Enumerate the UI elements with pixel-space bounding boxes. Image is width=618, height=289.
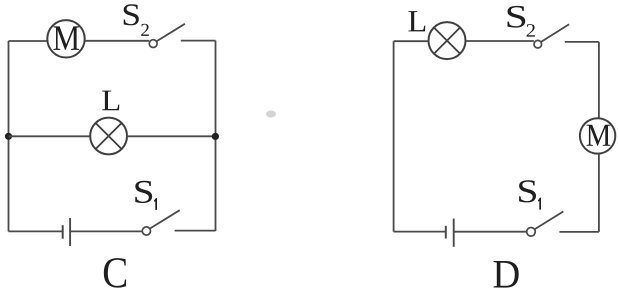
wire: D bottom-right segment	[559, 231, 599, 233]
wire: D top-left segment	[394, 40, 429, 42]
wire: D bottom middle segment	[454, 231, 527, 233]
switch S1 (circuit D) blade	[534, 212, 563, 230]
lamp L (circuit C)	[90, 118, 127, 155]
label D (circuit name)	[494, 261, 519, 288]
motor M (circuit D)	[580, 118, 615, 153]
wire: C top-right segment	[181, 40, 216, 42]
wire: D bottom-left segment	[394, 231, 446, 233]
battery (circuit D) short plate	[445, 226, 447, 239]
switch S1 (circuit C) blade	[150, 210, 180, 228]
battery (circuit D) long plate	[453, 219, 455, 247]
wire: D top middle segment (lamp to S2)	[466, 40, 534, 42]
wire: C bottom middle segment	[70, 230, 142, 232]
label C (circuit name)	[104, 258, 126, 288]
battery (circuit C) short plate	[62, 225, 64, 239]
label L (circuit C)	[102, 91, 119, 111]
switch S2 (circuit C) blade	[156, 24, 185, 42]
wire: D right vertical upper	[598, 42, 600, 118]
wire: D right vertical lower	[598, 154, 600, 232]
label S of S2 (circuit C)	[124, 4, 139, 25]
switch S2 (circuit C) pivot	[149, 40, 157, 48]
switch S2 (circuit D) blade	[541, 24, 569, 42]
battery (circuit C) long plate	[69, 218, 71, 246]
wire: C left vertical	[8, 41, 10, 231]
label L (circuit D)	[408, 11, 425, 31]
node: C left junction	[5, 133, 12, 140]
wire: C top middle segment (M to S2)	[84, 40, 149, 42]
label subscript 1 of S1 (circuit D)	[538, 198, 541, 210]
label subscript 1 of S1 (circuit C)	[154, 198, 157, 210]
wire: C right vertical	[215, 41, 217, 231]
label subscript 2 of S2 (circuit C)	[141, 24, 149, 36]
switch S2 (circuit D) pivot	[534, 40, 542, 48]
wire: C bottom-right segment	[175, 230, 216, 232]
lamp L (circuit D)	[429, 22, 466, 59]
label S of S1 (circuit C)	[135, 181, 152, 203]
label subscript 2 of S2 (circuit D)	[527, 24, 535, 36]
scan smudge artifact	[266, 111, 276, 118]
wire: C bottom-left segment	[9, 230, 63, 232]
switch S1 (circuit C) pivot	[142, 227, 150, 235]
wire: C middle-left segment	[9, 135, 91, 137]
label S of S2 (circuit D)	[508, 6, 526, 28]
motor M (circuit C)	[47, 20, 84, 57]
switch S1 (circuit D) pivot	[527, 228, 536, 237]
wire: C middle-right segment	[127, 135, 216, 137]
label S of S1 (circuit D)	[519, 180, 536, 202]
node: C right junction	[212, 133, 219, 140]
wire: D left vertical	[393, 41, 395, 231]
wire: C top-left segment	[9, 40, 48, 42]
wire: D top-right segment	[565, 41, 599, 43]
